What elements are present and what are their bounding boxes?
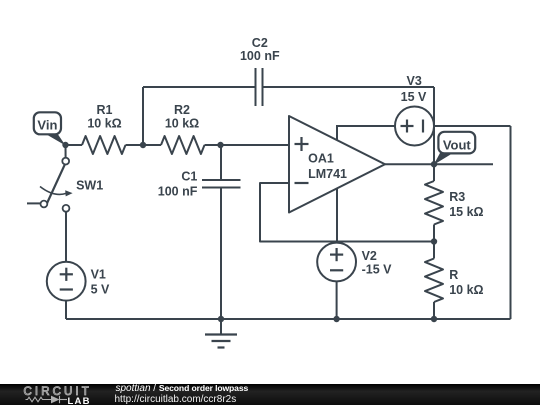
blade <box>46 164 65 206</box>
voltage source V1 <box>47 262 86 301</box>
svg-text:Vout: Vout <box>443 137 472 152</box>
flag Vin <box>34 112 66 145</box>
capacitor C1 <box>202 145 241 319</box>
resistor R <box>425 242 443 320</box>
wire C2 top left horizontal <box>143 86 255 88</box>
arc arrow <box>40 187 67 195</box>
wire V3 right terminal to right rail <box>434 125 511 127</box>
wire feedback from - input to R3/R junction <box>260 183 434 242</box>
op-amp - input mark <box>295 182 309 184</box>
svg-text:http://circuitlab.com/ccr8r2s: http://circuitlab.com/ccr8r2s <box>115 394 237 405</box>
svg-text:-15 V: -15 V <box>362 263 393 277</box>
wire vertical from node A up to C2 <box>142 87 144 145</box>
op-amp U1 triangle <box>289 116 385 213</box>
svg-text:10 kΩ: 10 kΩ <box>449 283 483 297</box>
wire right rail vertical <box>510 126 512 319</box>
wire op-amp V- power stem down to V2 <box>336 188 338 243</box>
svg-text:10 kΩ: 10 kΩ <box>87 117 121 131</box>
node V2 bottom dot <box>333 316 339 322</box>
svg-text:C2: C2 <box>252 36 268 50</box>
logo zigzag + diode + LAB <box>26 396 68 403</box>
node B dot (R2/C1/op-amp+) <box>217 142 223 148</box>
resistor R2 <box>161 136 205 154</box>
voltage source V3 <box>395 107 434 146</box>
ground <box>205 319 237 348</box>
svg-text:R1: R1 <box>97 103 113 117</box>
terminal circles <box>62 158 69 165</box>
wire R2 to op-amp + input <box>205 144 290 146</box>
node Vin dot <box>62 142 68 148</box>
flag Vout <box>434 132 475 165</box>
wire op-amp V+ power stem <box>337 126 395 140</box>
wire op-amp output to stub end <box>385 163 493 165</box>
switch SW1 <box>27 145 73 212</box>
wire R1 to node A <box>126 144 162 146</box>
wire vertical C2 down to Vout node <box>433 87 435 164</box>
svg-text:15 kΩ: 15 kΩ <box>449 205 483 219</box>
wire bottom rail <box>66 318 511 320</box>
node Vout dot <box>431 161 437 167</box>
node A dot (R1/R2/C2) <box>140 142 146 148</box>
svg-text:spottian / Second order lowpas: spottian / Second order lowpass <box>116 383 249 394</box>
svg-text:V2: V2 <box>362 249 377 263</box>
svg-text:SW1: SW1 <box>76 178 103 192</box>
svg-text:100 nF: 100 nF <box>158 184 198 198</box>
wire V1 top to switch <box>65 212 67 262</box>
wire V2 bottom to rail <box>336 281 338 319</box>
svg-text:C1: C1 <box>181 170 197 184</box>
op-amp + input mark <box>295 137 309 151</box>
svg-text:V1: V1 <box>91 268 106 282</box>
svg-text:R: R <box>449 268 458 282</box>
node R3/R junction dot <box>431 238 437 244</box>
wire C2 top right horizontal <box>264 86 435 88</box>
node R bottom dot <box>431 316 437 322</box>
svg-text:Vin: Vin <box>37 117 57 132</box>
resistor R3 <box>425 164 443 242</box>
wire Vin node to R1 <box>66 144 83 146</box>
svg-text:10 kΩ: 10 kΩ <box>165 117 199 131</box>
svg-text:100 nF: 100 nF <box>240 49 280 63</box>
wire node to top terminal <box>65 145 67 158</box>
node ground dot <box>218 316 224 322</box>
footer bar <box>0 383 540 405</box>
svg-text:LAB: LAB <box>68 396 91 405</box>
resistor R1 <box>82 136 126 154</box>
svg-text:15 V: 15 V <box>401 90 427 104</box>
voltage source V2 <box>317 243 356 282</box>
svg-text:V3: V3 <box>407 74 422 88</box>
svg-text:5 V: 5 V <box>91 282 110 296</box>
svg-text:R3: R3 <box>449 190 465 204</box>
svg-text:OA1: OA1 <box>308 152 334 166</box>
svg-text:LM741: LM741 <box>308 167 347 181</box>
wire V1 bottom to rail <box>65 301 67 319</box>
capacitor C2 <box>256 68 263 106</box>
svg-text:R2: R2 <box>174 103 190 117</box>
left stub wire <box>27 202 41 204</box>
